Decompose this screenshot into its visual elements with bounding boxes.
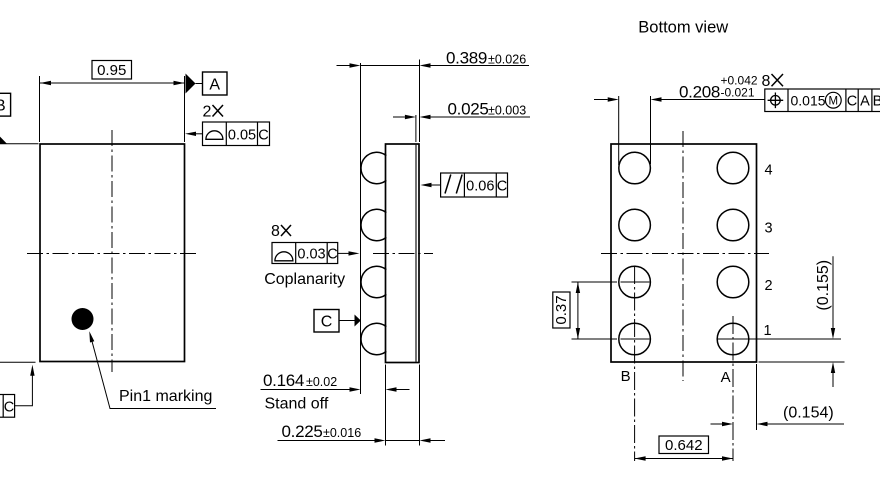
bottom edge extension left [0, 361, 36, 363]
leader with up arrow [15, 375, 33, 406]
bottom edge extension right [759, 361, 845, 363]
0.164 dimension [261, 389, 410, 391]
svg-text:A: A [860, 94, 870, 110]
svg-text:0.05: 0.05 [228, 127, 256, 143]
0.025 dimension [393, 116, 530, 118]
datum A triangle [186, 74, 196, 94]
datum A box [203, 72, 228, 95]
svg-text:B: B [0, 97, 6, 114]
datum C box [314, 310, 339, 333]
ball A4 [717, 152, 749, 184]
svg-text:±0.026: ±0.026 [488, 53, 526, 67]
ball A1 [717, 323, 749, 355]
0.95 extension line left [39, 76, 41, 142]
svg-text:2: 2 [203, 104, 212, 121]
svg-text:Pin1 marking: Pin1 marking [119, 388, 212, 405]
ball B3 [619, 209, 651, 241]
0.37 dimension [577, 282, 579, 339]
svg-text:8: 8 [762, 73, 771, 90]
svg-text:Stand off: Stand off [265, 396, 329, 413]
package outline [611, 144, 757, 362]
svg-text:C: C [497, 178, 507, 194]
svg-text:B: B [873, 94, 880, 110]
right edge extension below [756, 364, 758, 430]
svg-text:0.164: 0.164 [263, 371, 304, 390]
svg-text:±0.02: ±0.02 [306, 375, 337, 389]
coplanarity FCF [272, 243, 338, 264]
svg-text:A: A [721, 369, 731, 386]
svg-text:C: C [847, 94, 857, 110]
ball B4 [619, 152, 651, 184]
pin1 leader [91, 336, 217, 409]
ball 3 [361, 266, 386, 297]
ball A2 [717, 266, 749, 298]
ball A3 [717, 209, 749, 241]
svg-text:0.95: 0.95 [97, 62, 126, 79]
row1 crosshair B / 0.37 extension [572, 338, 650, 340]
column A centerline [732, 316, 734, 461]
0.95 boxed value [92, 61, 132, 80]
svg-text:A: A [209, 77, 220, 94]
horizontal centerline [27, 253, 197, 255]
ball 4 (bottom) [361, 323, 386, 354]
coplanarity leader arrow [338, 252, 349, 254]
svg-text:0.225: 0.225 [282, 422, 323, 441]
svg-text:(0.154): (0.154) [783, 405, 834, 422]
pin1 marking dot [72, 308, 94, 330]
svg-text:C: C [258, 127, 268, 143]
svg-text:4: 4 [764, 163, 772, 179]
svg-text:3: 3 [764, 221, 772, 237]
svg-text:Coplanarity: Coplanarity [264, 271, 345, 288]
side view horizontal centerline [373, 253, 433, 255]
row2 crosshair / 0.37 extension [572, 281, 650, 283]
svg-text:2: 2 [764, 278, 772, 294]
svg-text:0.025: 0.025 [448, 100, 489, 119]
ball B1 [619, 323, 651, 355]
row1 crosshair A / 0.155 extension [718, 338, 841, 340]
0.95 dimension line [40, 82, 185, 84]
0.642 dimension [635, 458, 733, 460]
inner line extension top [415, 115, 417, 142]
svg-text:M: M [829, 96, 839, 108]
svg-text:0.06: 0.06 [466, 178, 494, 194]
0.389 dimension [337, 65, 530, 67]
2x FCF leader arrow [196, 133, 203, 135]
datum B box (cut off) [0, 93, 11, 116]
svg-text:-0.021: -0.021 [721, 86, 755, 100]
svg-text:C: C [321, 313, 333, 330]
svg-text:0.03: 0.03 [297, 246, 325, 262]
horizontal centerline [601, 253, 769, 255]
svg-text:0.208: 0.208 [679, 83, 720, 102]
position FCF [765, 89, 880, 112]
ball B2 [619, 266, 651, 298]
right edge extension line top [419, 60, 421, 143]
(0.155) dimension [832, 256, 834, 387]
svg-text:8: 8 [271, 223, 280, 240]
0.225 dimension [278, 440, 446, 442]
datum C leader and triangle [339, 320, 356, 322]
svg-text:±0.003: ±0.003 [488, 104, 526, 118]
body bottom extension lines [385, 365, 387, 446]
svg-text:0.389: 0.389 [446, 49, 487, 68]
svg-text:0.642: 0.642 [665, 437, 703, 454]
svg-text:1: 1 [763, 323, 771, 339]
vertical centerline [682, 131, 684, 381]
2x profile FCF [203, 122, 270, 146]
0.642 boxed value [659, 436, 709, 454]
0.95 extension line right [184, 76, 186, 142]
(0.154) dimension [711, 423, 845, 425]
parallelism FCF [441, 173, 508, 197]
0.208 dimension [594, 99, 765, 101]
svg-text:0.37: 0.37 [553, 295, 570, 324]
package outline [40, 144, 185, 362]
svg-text:(0.155): (0.155) [815, 260, 832, 311]
parallelism leader arrow [432, 184, 441, 186]
svg-text:Bottom view: Bottom view [638, 19, 728, 37]
svg-text:±0.016: ±0.016 [323, 426, 361, 440]
svg-text:B: B [621, 368, 631, 385]
inner lamination line [415, 145, 417, 362]
0.208 extension lines [619, 96, 651, 165]
column B centerline [634, 266, 636, 461]
svg-text:0.015: 0.015 [791, 93, 826, 109]
cut FCF bottom left [0, 395, 15, 418]
ball 1 (top) [361, 152, 386, 183]
svg-text:C: C [4, 399, 14, 415]
seating plane extension line [360, 63, 362, 394]
body outline [386, 144, 420, 363]
svg-text:C: C [327, 246, 337, 262]
ball 2 [361, 209, 386, 240]
0.37 boxed value (rotated) [553, 292, 570, 328]
datum B triangle [0, 137, 7, 144]
vertical centerline [111, 130, 113, 372]
